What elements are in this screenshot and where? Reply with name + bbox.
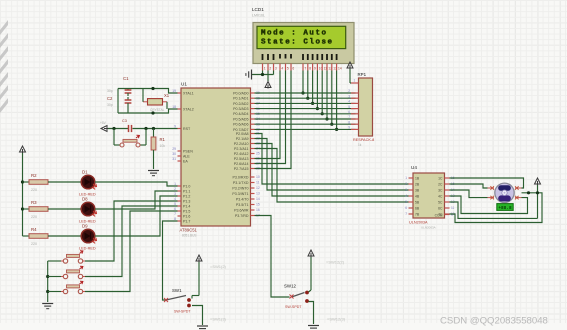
svg-text:U1: U1 [181,82,187,87]
LED D8 [79,196,97,223]
wire SW1 lower contact to ground [192,306,203,326]
wire P2.1 to U4 2B [255,139,409,191]
svg-text:18: 18 [172,105,176,109]
wire P0.2 to RP1 [255,102,356,104]
svg-text:LCD1: LCD1 [252,7,264,12]
svg-text:P3.0/RXD: P3.0/RXD [233,175,249,179]
svg-text:P3.5/T1: P3.5/T1 [236,203,249,207]
svg-text:9: 9 [174,124,176,128]
wire P3.7 to SW12 [255,216,290,298]
svg-text:ULN2003A: ULN2003A [409,221,428,225]
svg-text:D1: D1 [82,169,88,174]
svg-text:30: 30 [172,152,176,156]
push button K3 [0,281,85,294]
svg-text:P1.6: P1.6 [183,214,190,218]
svg-text:3: 3 [405,188,407,192]
svg-text:3: 3 [174,192,176,196]
wire U4 3C to motor [450,190,488,198]
svg-text:R1: R1 [160,137,166,142]
svg-text:=SW1(3): =SW1(3) [210,317,227,322]
svg-text:P3.6/WR: P3.6/WR [234,208,249,212]
capacitor C2 [107,96,131,113]
svg-text:Mode : Auto: Mode : Auto [261,30,328,38]
svg-text:10k: 10k [160,144,166,148]
svg-text:6B: 6B [415,206,420,210]
net label (SW12 bottom) [327,317,346,322]
svg-text:P1.7: P1.7 [183,219,190,223]
svg-text:P0.3/AD3: P0.3/AD3 [233,107,248,111]
wire U4 6C return [450,202,538,218]
svg-text:14: 14 [338,67,342,71]
svg-text:P2.6/A14: P2.6/A14 [234,162,249,166]
svg-text:1k: 1k [358,143,362,147]
svg-text:PSEN: PSEN [183,149,193,153]
svg-text:SW12: SW12 [284,284,297,289]
ground (R1) [148,171,159,176]
svg-text:7: 7 [304,67,306,71]
power terminal (LCD VDD) [265,71,271,89]
net label (SW12 top) [326,260,345,265]
power terminal +5V (left rail) [20,146,26,236]
wire U4 4C to motor [450,196,528,214]
svg-text:220: 220 [31,215,37,219]
svg-text:19: 19 [172,89,176,93]
svg-text:12: 12 [256,186,260,190]
svg-text:+5V: +5V [100,121,107,125]
button ground rail [42,261,53,309]
svg-text:P3.1/TXD: P3.1/TXD [233,181,249,185]
wire P0.6 to RP1 [255,123,356,125]
push button K1 [0,251,85,263]
svg-text:6: 6 [174,207,176,211]
svg-text:ULN2003A: ULN2003A [421,226,436,230]
resistor R1 [151,129,165,170]
svg-text:P0.2/AD2: P0.2/AD2 [233,102,248,106]
svg-text:P1.4: P1.4 [183,204,190,208]
svg-text:8: 8 [309,67,311,71]
svg-text:30p: 30p [107,103,113,107]
wire left rail to R3 row [21,207,24,210]
wire K2 to U1 P1.4 [85,206,178,277]
svg-text:9: 9 [314,67,316,71]
resistor R3 [23,200,82,219]
svg-text:3B: 3B [415,188,420,192]
svg-text:1: 1 [405,176,407,180]
svg-text:P2.3/A11: P2.3/A11 [234,147,249,151]
wire P2.2 to U4 3B [255,144,409,197]
net label (SW1 top) [210,264,227,269]
wire LCD RS to U1 [255,71,281,159]
svg-text:P0.5/AD5: P0.5/AD5 [233,117,248,121]
wire LCD D3 to P0.3 [316,71,319,111]
wire P0.4 to RP1 [255,113,356,115]
wire XTAL loop [118,87,178,115]
ground (LCD VSS/VEE) [246,70,274,80]
wire D1 cathode to U1 P1.0 [95,182,178,186]
svg-text:P3.4/T0: P3.4/T0 [236,197,249,201]
wire LCD D6 to P0.6 [330,71,333,126]
svg-text:R3: R3 [31,200,37,205]
svg-text:P1.0: P1.0 [183,184,190,188]
svg-text:ALE: ALE [183,154,190,158]
svg-text:P2.5/A13: P2.5/A13 [234,157,249,161]
svg-text:4B: 4B [415,194,420,198]
svg-text:P2.0/A8: P2.0/A8 [236,132,249,136]
power terminal (motor supply) [535,178,541,185]
wire LCD D7 to P0.7 [335,71,338,132]
svg-text:CSDN @QQ2083558048: CSDN @QQ2083558048 [440,316,548,327]
svg-text:P0.6/AD6: P0.6/AD6 [233,123,248,127]
svg-text:LED-RED: LED-RED [79,246,96,250]
switch SW12 [284,284,309,310]
wire P2.0 to U4 1B [255,134,409,185]
svg-text:R2: R2 [31,173,37,178]
svg-text:4: 4 [405,194,407,198]
svg-text:4: 4 [348,100,350,104]
svg-text:U4: U4 [411,165,417,170]
svg-text:D9: D9 [82,223,88,228]
wire U4 1C to motor [450,178,524,188]
svg-text:LM016L: LM016L [252,14,265,18]
svg-text:R4: R4 [31,227,37,232]
power terminal (RP1 common) [347,62,353,83]
wire P0.7 to RP1 [255,128,356,130]
svg-text:1B: 1B [415,176,420,180]
svg-text:5C: 5C [438,200,443,204]
wire LCD RW to U1 [255,71,286,164]
wire LCD D0 to P0.0 [301,71,304,95]
svg-text:=SW12(3): =SW12(3) [327,317,346,322]
svg-text:6C: 6C [438,206,443,210]
svg-text:State: Close: State: Close [261,39,334,47]
svg-text:9: 9 [348,126,350,130]
svg-text:CRYSTAL: CRYSTAL [150,108,165,112]
wire P1.7 to SW1 [163,221,178,300]
wire U4 2C to motor [450,184,488,188]
svg-text:14: 14 [256,197,260,201]
svg-text:3: 3 [348,94,350,98]
svg-text:8051.BUS: 8051.BUS [182,234,197,238]
ground (SW1) [197,326,208,330]
crystal X1 [143,89,170,112]
LCD LCD1 LM016L [252,7,354,71]
svg-text:5: 5 [348,105,350,109]
wire LCD D4 to P0.4 [321,71,324,116]
svg-text:3C: 3C [438,188,443,192]
svg-text:220: 220 [31,242,37,246]
wire P0.1 to RP1 [255,97,356,99]
resistor pack RP1 RESPACK-8 [348,72,374,147]
wire K3 to U1 P1.5 [85,211,178,292]
wire P0.5 to RP1 [255,118,356,120]
svg-text:P0.4/AD4: P0.4/AD4 [233,112,248,116]
svg-text:11: 11 [451,206,455,210]
wire D8 cathode to U1 P1.1 [95,191,178,209]
svg-text:2: 2 [348,89,350,93]
svg-text:6: 6 [405,206,407,210]
resistor R4 [23,227,82,246]
wire LCD E to U1 [255,71,292,169]
svg-text:6: 6 [348,110,350,114]
svg-text:P1.3: P1.3 [183,199,190,203]
motor M1 MOTOR-STEPPER [488,183,522,211]
svg-text:7: 7 [405,212,407,216]
svg-text:P2.2/A10: P2.2/A10 [234,142,249,146]
svg-text:25: 25 [256,152,260,156]
svg-text:2: 2 [269,67,271,71]
capacitor C1 [107,76,131,96]
svg-text:4: 4 [281,67,283,71]
svg-text:SW1: SW1 [172,288,182,293]
svg-text:1: 1 [354,79,356,83]
svg-text:8: 8 [174,217,176,221]
svg-text:RP1: RP1 [358,72,367,77]
svg-text:C1: C1 [123,76,129,81]
svg-text:SW-SPDT: SW-SPDT [285,305,302,309]
svg-text:COM: COM [435,214,443,218]
wire LCD D2 to P0.2 [311,71,314,106]
svg-text:SW-SPDT: SW-SPDT [174,310,191,314]
svg-text:D8: D8 [82,196,88,201]
svg-text:P2.7/A15: P2.7/A15 [234,167,249,171]
svg-text:=SW12(2): =SW12(2) [326,260,345,265]
svg-text:=SW1(2): =SW1(2) [210,264,227,269]
wire LCD D1 to P0.1 [306,71,309,100]
svg-text:P3.7/RD: P3.7/RD [235,214,249,218]
wire P2.3 to U4 4B [255,149,409,203]
resistor R2 [23,173,82,192]
svg-text:2: 2 [174,187,176,191]
svg-text:11: 11 [256,181,260,185]
svg-text:31: 31 [172,157,176,161]
power terminal (SW12) [308,250,314,292]
svg-text:6: 6 [292,67,294,71]
switch SW1 [164,288,191,314]
svg-text:3: 3 [275,67,277,71]
svg-text:10: 10 [256,175,260,179]
decorative watermark stripes (left edge) [0,20,8,113]
push button K2 [0,266,85,279]
wire D9 cathode to U1 P1.2 [95,196,178,236]
svg-text:2B: 2B [415,182,420,186]
svg-text:XTAL1: XTAL1 [183,91,194,95]
capacitor C3 [122,119,132,132]
svg-text:5: 5 [405,200,407,204]
svg-text:5B: 5B [415,200,420,204]
svg-text:AT89C51: AT89C51 [180,228,198,233]
LED D1 [79,169,97,196]
wire U4 COM to +12V [450,193,543,223]
wire motor supply stem [527,185,539,218]
svg-text:+88.8: +88.8 [498,206,512,211]
svg-text:EA: EA [183,159,188,163]
svg-text:X1: X1 [164,93,170,98]
svg-text:RESPACK-8: RESPACK-8 [353,138,374,142]
wire left rail to R2 row [21,180,24,183]
wire RST line [108,127,178,130]
svg-text:5: 5 [174,202,176,206]
svg-text:C3: C3 [122,119,127,123]
transistor array U4 ULN2003A [405,165,455,230]
net label (SW1 bottom) [210,317,227,322]
svg-text:13: 13 [256,192,260,196]
wire LCD D5 to P0.5 [325,71,328,121]
wire P0.3 to RP1 [255,108,356,110]
svg-text:4C: 4C [438,194,443,198]
svg-text:16: 16 [256,208,260,212]
svg-text:P1.2: P1.2 [183,194,190,198]
svg-text:29: 29 [172,147,176,151]
svg-text:P3.3/INT1: P3.3/INT1 [232,192,248,196]
svg-text:P1.1: P1.1 [183,189,190,193]
svg-text:P1.5: P1.5 [183,209,190,213]
svg-text:P0.1/AD1: P0.1/AD1 [233,97,248,101]
svg-text:1: 1 [174,182,176,186]
wire K1 to U1 P1.3 [85,201,178,261]
push button reset [114,129,146,148]
svg-text:1C: 1C [438,176,443,180]
svg-text:C2: C2 [107,96,113,101]
wire P0.0 to RP1 [255,92,356,94]
svg-text:P2.4/A12: P2.4/A12 [234,152,249,156]
ground (SW12) [308,326,319,330]
svg-text:7: 7 [174,212,176,216]
svg-text:30p: 30p [107,89,113,93]
watermark text [440,316,548,327]
svg-text:XTAL2: XTAL2 [183,107,194,111]
power terminal (SW1) [192,255,202,299]
power terminal (reset, +5V left) [100,121,108,132]
svg-text:P2.1/A9: P2.1/A9 [236,137,249,141]
svg-text:5: 5 [287,67,289,71]
svg-text:8: 8 [348,120,350,124]
svg-text:220: 220 [31,188,37,192]
svg-text:15: 15 [256,203,260,207]
svg-text:P3.2/INT0: P3.2/INT0 [232,186,248,190]
LED D9 [79,223,97,250]
svg-text:2C: 2C [438,182,443,186]
svg-text:4: 4 [174,197,176,201]
op-amp U1 microcontroller AT89C51 [172,82,260,238]
svg-text:2: 2 [405,182,407,186]
svg-text:7B: 7B [415,212,420,216]
svg-text:7: 7 [348,115,350,119]
svg-text:RST: RST [183,127,191,131]
svg-text:P0.0/AD0: P0.0/AD0 [233,91,248,95]
wire SW12 lower contact to ground [309,302,314,325]
svg-text:1: 1 [264,67,266,71]
